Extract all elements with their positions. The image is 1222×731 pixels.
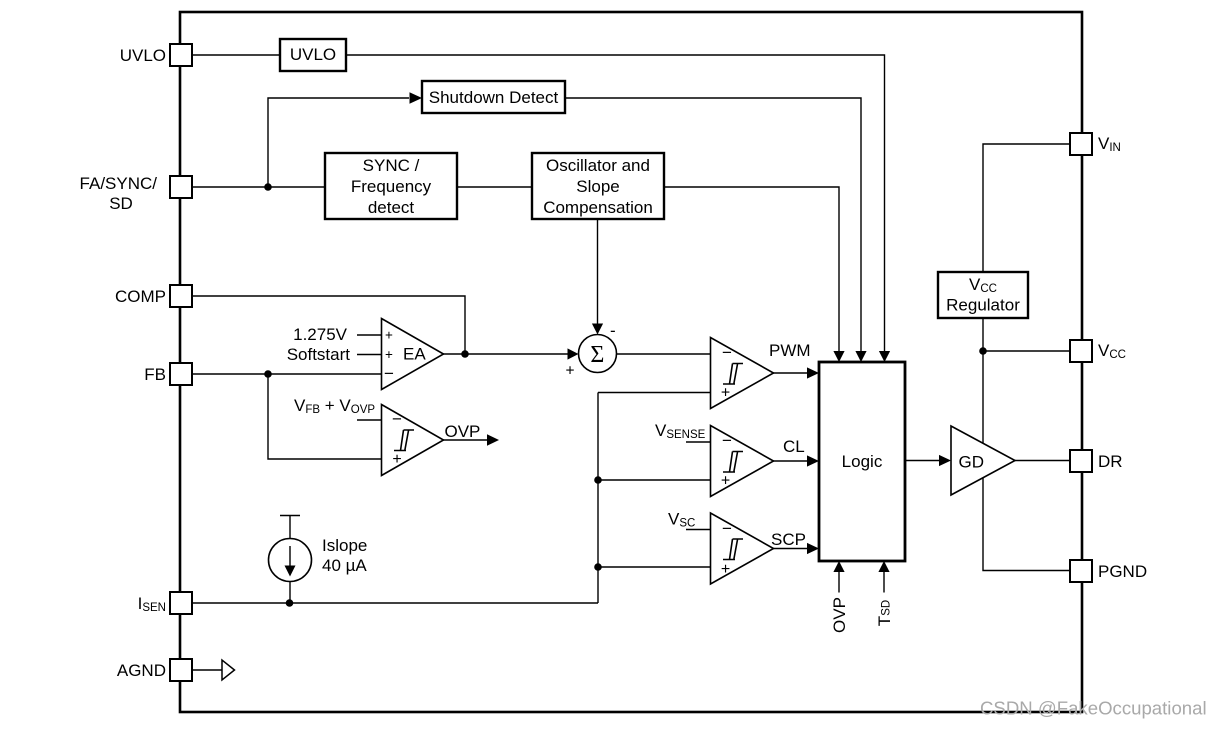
wire SYNC block to oscillator block bbox=[457, 186, 532, 188]
pin FA/SYNC/SD bbox=[170, 176, 192, 198]
node bus junction SCP bbox=[594, 563, 602, 571]
wire UVLO block to logic drop bbox=[346, 55, 885, 351]
pin VIN bbox=[1070, 133, 1092, 155]
svg-text:−: − bbox=[384, 364, 394, 383]
hysteresis symbol CL bbox=[723, 452, 743, 473]
IC boundary bbox=[180, 12, 1082, 712]
ground AGND symbol bbox=[222, 660, 235, 680]
pin FB bbox=[170, 363, 192, 385]
op-amp EA bbox=[382, 319, 444, 390]
block Logic bbox=[819, 362, 905, 561]
svg-text:Σ: Σ bbox=[590, 342, 604, 368]
svg-text:UVLO: UVLO bbox=[120, 46, 166, 65]
arrow into GD bbox=[939, 455, 951, 466]
wire summer to PWM comparator bbox=[617, 353, 711, 355]
wire sense bus vertical bbox=[597, 393, 599, 604]
wire AGND pin to ground bbox=[192, 669, 222, 671]
svg-text:Shutdown Detect: Shutdown Detect bbox=[429, 88, 559, 107]
wire SCP plus input bbox=[598, 566, 711, 568]
wire PWM output to logic bbox=[774, 372, 809, 374]
pin COMP bbox=[170, 285, 192, 307]
arrow CL into logic bbox=[807, 455, 819, 466]
node bus junction CL bbox=[594, 476, 602, 484]
svg-text:Slope: Slope bbox=[576, 177, 619, 196]
svg-text:PGND: PGND bbox=[1098, 562, 1147, 581]
wire PWM plus input bbox=[598, 392, 711, 394]
svg-text:−: − bbox=[392, 410, 402, 429]
svg-text:−: − bbox=[722, 431, 732, 450]
wire stub OVP comparator inverting input bbox=[357, 419, 381, 421]
svg-text:Oscillator and: Oscillator and bbox=[546, 156, 650, 175]
summer sigma circle bbox=[579, 335, 617, 373]
wire stub EA input 1 bbox=[357, 334, 381, 336]
arrow into logic top from oscillator bbox=[833, 351, 844, 362]
hysteresis symbol PWM bbox=[723, 364, 743, 385]
node VCC junction bbox=[979, 347, 987, 355]
wire shutdown detect to logic drop bbox=[565, 98, 861, 351]
node FA junction bbox=[264, 183, 272, 191]
svg-text:Logic: Logic bbox=[842, 452, 883, 471]
svg-text:SD: SD bbox=[109, 194, 133, 213]
svg-text:detect: detect bbox=[368, 198, 415, 217]
svg-text:SCP: SCP bbox=[771, 530, 806, 549]
wire VCC tap bbox=[983, 350, 1070, 352]
wire EA output to summer bbox=[444, 353, 569, 355]
wire GD output to DR pin bbox=[1015, 460, 1070, 462]
svg-text:Compensation: Compensation bbox=[543, 198, 653, 217]
wire logic output to GD bbox=[905, 460, 940, 462]
wire stub CL inverting input bbox=[686, 441, 711, 443]
svg-text:OVP: OVP bbox=[830, 597, 849, 633]
arrow OVP output bbox=[487, 434, 499, 445]
pin VCC bbox=[1070, 340, 1092, 362]
svg-text:SYNC /: SYNC / bbox=[363, 156, 420, 175]
svg-text:Regulator: Regulator bbox=[946, 296, 1020, 315]
svg-text:Islope: Islope bbox=[322, 536, 367, 555]
pin AGND bbox=[170, 659, 192, 681]
wire FB pin to EA inverting input bbox=[192, 373, 381, 375]
wire FA junction up to shutdown detect bbox=[268, 98, 409, 187]
svg-text:GD: GD bbox=[959, 453, 985, 472]
svg-text:1.275V: 1.275V bbox=[293, 325, 348, 344]
svg-text:UVLO: UVLO bbox=[290, 45, 336, 64]
block Oscillator and Slope Compensation bbox=[532, 153, 664, 219]
arrow PWM into logic bbox=[807, 367, 819, 378]
wire TSD arrow into logic bottom bbox=[883, 571, 885, 593]
wire FB junction down to OVP comparator bbox=[268, 374, 381, 459]
arrow SCP into logic bbox=[807, 543, 819, 554]
svg-text:+: + bbox=[385, 328, 393, 343]
svg-text:40 µA: 40 µA bbox=[322, 556, 367, 575]
svg-text:+: + bbox=[721, 385, 730, 402]
svg-text:DR: DR bbox=[1098, 452, 1123, 471]
arrow into logic top from shutdown bbox=[855, 351, 866, 362]
hysteresis symbol OVP bbox=[394, 430, 414, 451]
arrow OVP into logic bottom bbox=[833, 561, 844, 572]
wire oscillator to logic drop bbox=[664, 187, 839, 351]
svg-text:-: - bbox=[610, 321, 616, 340]
wire stub SCP inverting input bbox=[686, 529, 711, 531]
svg-text:+: + bbox=[392, 451, 401, 468]
svg-text:CSDN @FakeOccupational: CSDN @FakeOccupational bbox=[980, 698, 1207, 719]
wire CL output to logic bbox=[774, 460, 809, 462]
wire stub EA input 2 bbox=[357, 354, 381, 356]
block UVLO bbox=[280, 39, 346, 71]
arrow into logic top from UVLO bbox=[879, 351, 890, 362]
svg-text:FA/SYNC/: FA/SYNC/ bbox=[80, 174, 158, 193]
comparator OVP bbox=[382, 405, 444, 476]
wire CL plus input bbox=[598, 479, 711, 481]
wire oscillator down to summer bbox=[597, 219, 599, 324]
svg-text:Frequency: Frequency bbox=[351, 177, 432, 196]
pin PGND bbox=[1070, 560, 1092, 582]
svg-text:AGND: AGND bbox=[117, 661, 166, 680]
svg-text:COMP: COMP bbox=[115, 287, 166, 306]
wire VIN pin to regulator bbox=[983, 144, 1070, 272]
svg-text:Softstart: Softstart bbox=[287, 345, 351, 364]
block VCC Regulator bbox=[938, 272, 1028, 318]
wire OVP comparator output bbox=[444, 439, 489, 441]
node Islope junction bbox=[286, 599, 294, 607]
pin DR bbox=[1070, 450, 1092, 472]
arrow into shutdown detect bbox=[410, 92, 423, 104]
svg-text:+: + bbox=[721, 473, 730, 490]
svg-text:+: + bbox=[385, 347, 393, 362]
svg-text:CL: CL bbox=[783, 437, 805, 456]
node EA output junction bbox=[461, 350, 469, 358]
svg-text:FB: FB bbox=[144, 365, 166, 384]
wire FA/SYNC/SD pin to SYNC block bbox=[192, 186, 325, 188]
arrow into summer left bbox=[568, 348, 579, 359]
svg-text:−: − bbox=[722, 519, 732, 538]
buffer GD bbox=[951, 426, 1015, 495]
wire regulator down to PGND rail bbox=[983, 318, 1070, 571]
wire OVP arrow into logic bottom bbox=[838, 571, 840, 593]
node FB junction bbox=[264, 370, 272, 378]
svg-text:EA: EA bbox=[403, 345, 426, 364]
svg-text:+: + bbox=[721, 561, 730, 578]
comparator SCP bbox=[711, 513, 774, 584]
svg-text:PWM: PWM bbox=[769, 341, 811, 360]
wire ISEN pin to sense bus bbox=[192, 602, 598, 604]
svg-text:OVP: OVP bbox=[445, 422, 481, 441]
wire SCP output to logic bbox=[774, 548, 809, 550]
comparator CL bbox=[711, 426, 774, 497]
comparator PWM bbox=[711, 338, 774, 409]
hysteresis symbol SCP bbox=[723, 539, 743, 560]
pin ISEN bbox=[170, 592, 192, 614]
svg-text:−: − bbox=[722, 343, 732, 362]
wire COMP pin to EA output node bbox=[192, 296, 465, 354]
svg-text:+: + bbox=[565, 363, 574, 380]
wire UVLO pin to UVLO block bbox=[192, 54, 280, 56]
arrow TSD into logic bottom bbox=[878, 561, 889, 572]
block SYNC / Frequency detect bbox=[325, 153, 457, 219]
current source Islope bbox=[269, 516, 312, 604]
pin UVLO bbox=[170, 44, 192, 66]
block Shutdown Detect bbox=[422, 81, 565, 113]
arrow into summer top bbox=[592, 324, 603, 335]
